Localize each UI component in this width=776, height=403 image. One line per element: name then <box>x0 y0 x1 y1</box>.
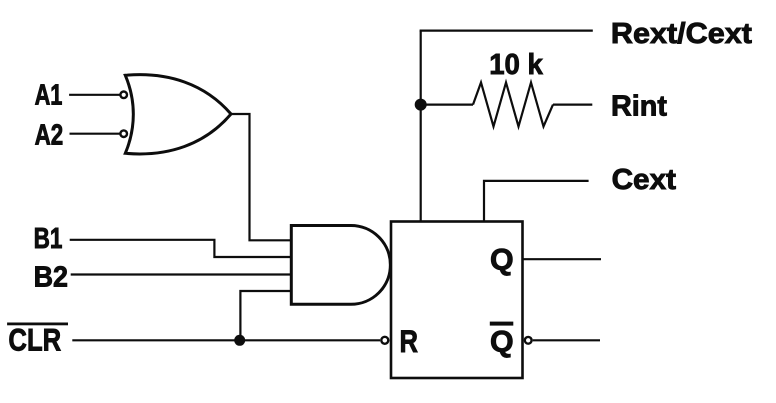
svg-text:R: R <box>400 323 419 359</box>
overline CLR <box>7 323 68 326</box>
bubble Q-bar output <box>525 337 532 344</box>
bubble R inverting input <box>381 337 388 344</box>
svg-text:CLR: CLR <box>8 322 61 358</box>
svg-text:10 k: 10 k <box>489 49 544 81</box>
svg-text:B2: B2 <box>34 262 68 294</box>
AND gate U2 <box>291 226 390 305</box>
resistor 10 k <box>473 83 553 127</box>
wire Rint node to resistor <box>421 103 473 105</box>
wire Rext/Cext vertical into block <box>420 31 422 222</box>
svg-text:Cext: Cext <box>612 164 677 196</box>
wire CLR branch to AND input <box>240 291 291 340</box>
wire Cext <box>484 181 589 222</box>
wire B2 input lead <box>71 273 292 275</box>
bubble A2 inverting input <box>120 130 127 137</box>
wire resistor to Rint <box>553 103 592 105</box>
wire Rext/Cext top <box>420 30 593 32</box>
wire CLR net <box>72 339 380 341</box>
svg-text:B1: B1 <box>34 223 63 255</box>
OR gate U1 <box>125 75 231 154</box>
svg-text:Rint: Rint <box>611 90 667 122</box>
one-shot block U3 <box>391 222 523 379</box>
junction CLR branch <box>234 335 245 346</box>
svg-text:Rext/Cext: Rext/Cext <box>611 18 752 50</box>
wire A2 input lead <box>70 133 121 135</box>
overline Q-bar <box>490 322 514 326</box>
wire Q output <box>523 258 602 260</box>
bubble A1 inverting input <box>120 92 127 99</box>
wire B1 input lead <box>70 240 292 257</box>
wire Q-bar output <box>533 339 600 341</box>
svg-text:Q: Q <box>490 243 514 276</box>
svg-text:A2: A2 <box>35 120 64 152</box>
wire OR output to AND input <box>231 114 291 240</box>
wire A1 input lead <box>69 94 120 96</box>
svg-text:Q: Q <box>490 325 514 358</box>
junction Rint node <box>415 99 427 111</box>
svg-text:A1: A1 <box>35 80 63 112</box>
